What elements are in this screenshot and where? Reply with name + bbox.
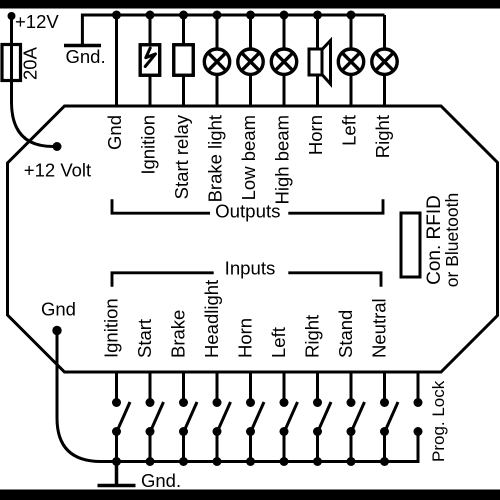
svg-text:Horn: Horn bbox=[235, 318, 256, 358]
horn speaker symbol bbox=[309, 41, 331, 85]
switch SW2 Start bbox=[146, 372, 164, 466]
svg-text:Gnd.: Gnd. bbox=[66, 46, 106, 67]
junction bus dot Start relay column bbox=[179, 11, 188, 20]
controller outline (octagon) bbox=[8, 106, 498, 372]
svg-text:Stand: Stand bbox=[335, 310, 356, 358]
junction bus dot High beam column bbox=[280, 11, 289, 20]
wire Start relay output pin bbox=[182, 15, 185, 106]
fuse F1 bbox=[2, 45, 21, 81]
wire Gnd pin bbox=[115, 15, 118, 106]
svg-text:Headlight: Headlight bbox=[201, 280, 222, 358]
svg-text:Right: Right bbox=[372, 115, 393, 158]
svg-text:Horn: Horn bbox=[305, 115, 326, 155]
switch SW7 Right bbox=[313, 372, 331, 466]
svg-text:Inputs: Inputs bbox=[225, 258, 276, 279]
inputs group bracket bbox=[112, 273, 381, 287]
svg-text:Start relay: Start relay bbox=[171, 114, 192, 199]
lamp right indicator bbox=[372, 49, 397, 74]
node +12 Volt terminal dot bbox=[53, 142, 62, 151]
wire Horn pin bbox=[316, 15, 319, 106]
svg-text:Gnd: Gnd bbox=[41, 299, 76, 320]
switch SW6 Left bbox=[280, 372, 298, 466]
wire Ignition output pin bbox=[149, 15, 152, 106]
svg-text:High beam: High beam bbox=[272, 115, 293, 204]
wire High beam pin bbox=[283, 15, 286, 106]
junction bus dot Brake light column bbox=[213, 11, 222, 20]
svg-text:Gnd.: Gnd. bbox=[141, 470, 181, 491]
svg-text:Gnd: Gnd bbox=[104, 115, 125, 150]
wire Right pin bbox=[383, 15, 386, 106]
junction bus dot Low beam column bbox=[246, 11, 255, 20]
switch SW1 Ignition bbox=[112, 372, 130, 466]
svg-text:Low beam: Low beam bbox=[238, 115, 259, 200]
svg-text:+12V: +12V bbox=[15, 11, 59, 32]
lamp left indicator bbox=[338, 49, 363, 74]
lamp high beam bbox=[271, 49, 296, 74]
letterbox bar bottom bbox=[0, 490, 500, 500]
svg-text:or Bluetooth: or Bluetooth bbox=[442, 193, 462, 287]
svg-text:Brake light: Brake light bbox=[205, 115, 226, 202]
lamp low beam bbox=[238, 49, 263, 74]
wire top supply bus bbox=[82, 15, 384, 44]
junction bus dot Ignition column bbox=[146, 11, 155, 20]
junction bus dot Left column bbox=[347, 11, 356, 20]
wire Left pin bbox=[350, 15, 353, 106]
svg-text:20A: 20A bbox=[20, 46, 41, 80]
svg-text:Right: Right bbox=[302, 315, 323, 358]
svg-text:+12 Volt: +12 Volt bbox=[24, 160, 91, 181]
junction bus dot Horn column bbox=[313, 11, 322, 20]
wire +12V feed through fuse with curve to +12 Volt terminal bbox=[12, 16, 54, 147]
switch SW8 Stand bbox=[347, 372, 365, 466]
switch SW4 Headlight bbox=[213, 372, 231, 466]
svg-text:Ignition: Ignition bbox=[138, 115, 159, 175]
svg-text:Brake: Brake bbox=[168, 310, 189, 358]
svg-text:Neutral: Neutral bbox=[369, 298, 390, 358]
connector Con. RFID or Bluetooth bbox=[401, 213, 420, 277]
switch SW5 Horn bbox=[246, 372, 264, 466]
ground symbol top bbox=[64, 44, 101, 48]
svg-text:Left: Left bbox=[268, 327, 289, 358]
ignition coil box with lightning bolt bbox=[140, 45, 160, 76]
junction bus dot Gnd column bbox=[112, 11, 121, 20]
svg-text:Start: Start bbox=[134, 319, 155, 358]
svg-text:Outputs: Outputs bbox=[215, 201, 280, 222]
node Gnd terminal dot bbox=[52, 326, 61, 335]
svg-text:Left: Left bbox=[339, 115, 360, 146]
wire Brake light pin bbox=[216, 15, 219, 106]
prog lock jumper bbox=[414, 372, 423, 436]
node +12V terminal dot bbox=[8, 12, 16, 20]
start relay box bbox=[174, 45, 194, 76]
lamp brake light bbox=[204, 49, 229, 74]
outputs group bracket bbox=[112, 199, 383, 213]
svg-text:Ignition: Ignition bbox=[101, 298, 122, 358]
wire ground return with curve and bottom rail bbox=[57, 331, 418, 462]
switch SW3 Brake bbox=[179, 372, 197, 466]
ground symbol bottom bbox=[98, 462, 136, 486]
wire Low beam pin bbox=[249, 15, 252, 106]
svg-text:Prog. Lock: Prog. Lock bbox=[429, 380, 448, 462]
switch SW9 Neutral bbox=[380, 372, 398, 466]
letterbox bar top bbox=[0, 0, 500, 9]
